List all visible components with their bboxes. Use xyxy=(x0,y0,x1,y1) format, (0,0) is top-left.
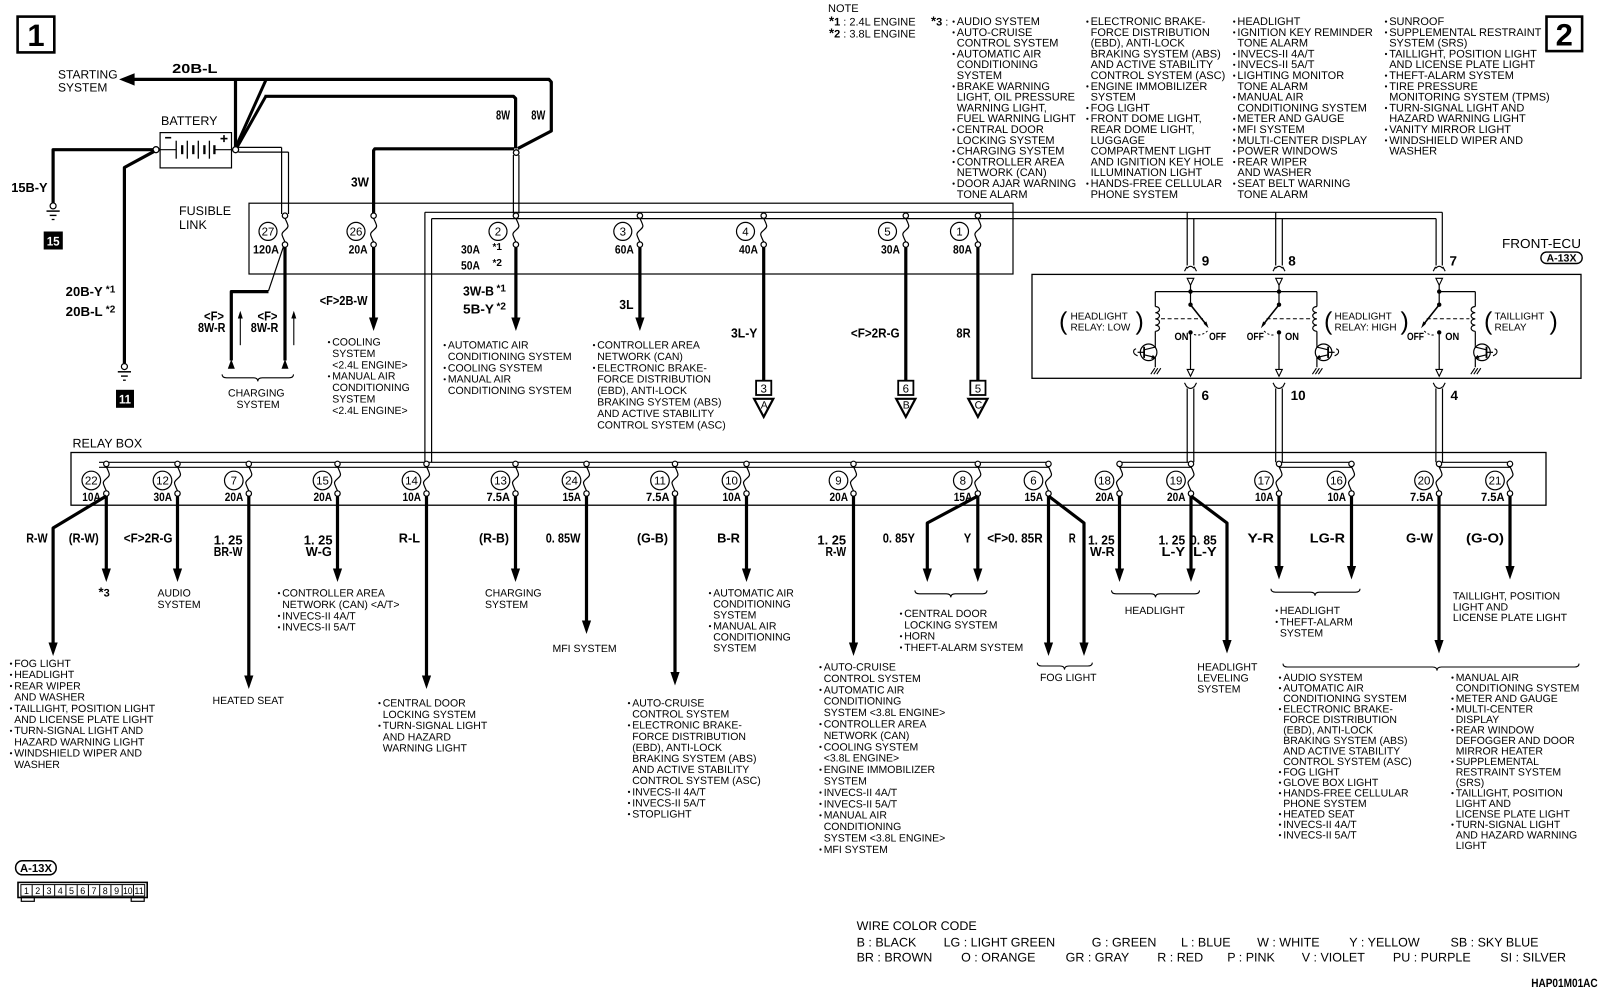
svg-text:TAILLIGHT: TAILLIGHT xyxy=(1495,312,1545,323)
destination list fuses 17/16 xyxy=(1271,589,1360,640)
svg-text:CONTROL SYSTEM (ASC): CONTROL SYSTEM (ASC) xyxy=(597,419,726,431)
svg-text:2: 2 xyxy=(1556,18,1573,53)
relay box fuse 18 20A xyxy=(1095,461,1122,504)
svg-text:1: 1 xyxy=(24,886,29,897)
svg-text:FOG LIGHT: FOG LIGHT xyxy=(14,658,71,670)
ECU pin 4 xyxy=(1433,383,1458,403)
svg-text:FOG LIGHT: FOG LIGHT xyxy=(1040,672,1097,684)
wire F 8W-R fuse 27 to charging system (left branch) xyxy=(198,247,284,369)
svg-text:6: 6 xyxy=(1202,388,1210,403)
wire 8R fuse 1 to connector C xyxy=(956,247,978,380)
fusible link fuse 1 80A xyxy=(951,213,981,257)
relay K1 transistor Q1 xyxy=(1134,344,1161,374)
relay box fuse 19 20A xyxy=(1167,461,1194,504)
svg-text:60A: 60A xyxy=(615,243,634,257)
svg-text:TURN-SIGNAL LIGHT AND: TURN-SIGNAL LIGHT AND xyxy=(14,725,143,737)
destination charging system xyxy=(485,588,542,612)
svg-text:C: C xyxy=(975,400,983,412)
svg-text:CONTROLLER AREA: CONTROLLER AREA xyxy=(282,588,385,600)
fusible link fuse 5 30A xyxy=(879,213,909,257)
sheet marker 1 xyxy=(18,17,55,53)
relay box fuse 6 15A xyxy=(1024,461,1051,504)
svg-text:L-Y: L-Y xyxy=(1162,544,1186,559)
relay K3 transistor Q3 xyxy=(1471,344,1497,374)
svg-text:HAZARD WARNING LIGHT: HAZARD WARNING LIGHT xyxy=(14,736,145,748)
svg-text:AND ACTIVE STABILITY: AND ACTIVE STABILITY xyxy=(597,408,714,420)
fusible link fuse 26 20A xyxy=(347,213,377,257)
svg-text:20A: 20A xyxy=(1096,490,1115,504)
svg-text:SYSTEM: SYSTEM xyxy=(824,776,867,788)
svg-text:LG : LIGHT GREEN: LG : LIGHT GREEN xyxy=(944,935,1056,949)
wire R-W fuse 22 to light systems xyxy=(26,496,106,656)
destination list fuse 15 xyxy=(278,588,400,634)
relay K3 switch xyxy=(1407,292,1469,343)
svg-text:CONTROLLER AREA: CONTROLLER AREA xyxy=(824,719,927,731)
svg-text:G-W: G-W xyxy=(1406,531,1434,546)
svg-text:10: 10 xyxy=(123,886,133,897)
destination list fuse 26 xyxy=(328,337,410,417)
svg-text:(G-O): (G-O) xyxy=(1466,531,1504,546)
svg-text:120A: 120A xyxy=(253,243,279,257)
hollow wire pin 10 to relay box xyxy=(1276,388,1283,462)
wire 0.85W fuse 24 to MFI system xyxy=(546,496,591,634)
svg-text:AND HAZARD: AND HAZARD xyxy=(383,731,452,743)
svg-text:ON: ON xyxy=(1175,331,1189,343)
note legend xyxy=(828,3,948,41)
svg-text:W : WHITE: W : WHITE xyxy=(1257,935,1320,949)
svg-text:RELAY: LOW: RELAY: LOW xyxy=(1071,323,1131,334)
svg-text:7.5A: 7.5A xyxy=(487,490,511,504)
svg-text:INVECS-II 5A/T: INVECS-II 5A/T xyxy=(824,798,898,810)
svg-text:MANUAL AIR: MANUAL AIR xyxy=(824,810,888,822)
wire 3W-B/5B-Y fuse 2 to A/C systems xyxy=(463,247,521,331)
wire 3L-Y fuse 4 to connector A xyxy=(731,247,764,380)
svg-text:OFF: OFF xyxy=(1209,331,1226,343)
destination list fuse 11 xyxy=(628,698,761,821)
wire 1.25W-R fuse 18 to headlight xyxy=(1088,496,1124,582)
svg-text:WINDSHIELD WIPER AND: WINDSHIELD WIPER AND xyxy=(14,748,142,760)
svg-text:HAP01M01AC: HAP01M01AC xyxy=(1531,976,1598,990)
wire Y fuse 8 straight xyxy=(964,496,983,582)
svg-text:6: 6 xyxy=(80,886,85,897)
wire 15B-Y battery negative to ground 15 xyxy=(11,150,153,203)
svg-text:STOPLIGHT: STOPLIGHT xyxy=(632,809,692,821)
svg-text:3W-B: 3W-B xyxy=(463,284,494,299)
svg-text:R-W: R-W xyxy=(826,544,847,559)
svg-text:<F>2B-W: <F>2B-W xyxy=(320,293,368,308)
svg-text:AND LICENSE PLATE LIGHT: AND LICENSE PLATE LIGHT xyxy=(14,714,154,726)
svg-text:*2 : 3.8L ENGINE: *2 : 3.8L ENGINE xyxy=(829,26,916,41)
svg-text:OFF: OFF xyxy=(1247,331,1264,343)
svg-text:4: 4 xyxy=(742,227,749,239)
svg-text:L-Y: L-Y xyxy=(1193,544,1217,559)
svg-text:5: 5 xyxy=(975,383,981,395)
svg-text:18: 18 xyxy=(1098,476,1111,488)
svg-text:P : PINK: P : PINK xyxy=(1227,951,1275,965)
svg-text:<F>2R-G: <F>2R-G xyxy=(851,326,900,341)
relay box fuse 21 7.5A xyxy=(1481,461,1513,504)
relay box fuse 14 10A xyxy=(402,461,429,504)
battery xyxy=(153,114,239,168)
svg-text:4: 4 xyxy=(1451,388,1459,403)
ECU pin 7 xyxy=(1433,254,1457,286)
svg-text:R: R xyxy=(1069,531,1076,546)
svg-text:10A: 10A xyxy=(1328,490,1347,504)
relay box bus (main) xyxy=(99,462,1049,467)
svg-text:AUTOMATIC AIR: AUTOMATIC AIR xyxy=(824,684,905,696)
svg-text:REAR WIPER: REAR WIPER xyxy=(14,680,81,692)
svg-text:AUTO-CRUISE: AUTO-CRUISE xyxy=(824,662,896,674)
svg-text:R : RED: R : RED xyxy=(1157,951,1203,965)
svg-text:SYSTEM: SYSTEM xyxy=(332,394,375,406)
relay box fuse 22 10A xyxy=(82,461,109,504)
relay box fuse 24 15A xyxy=(562,461,589,504)
offpage connector 6/B xyxy=(896,381,915,417)
label relay box xyxy=(73,437,143,451)
relay K3 label xyxy=(1484,308,1558,336)
relay box bus segment fuses 20-21 xyxy=(1439,462,1510,467)
svg-text:WARNING LIGHT: WARNING LIGHT xyxy=(383,743,468,755)
relay K1 label xyxy=(1059,308,1144,336)
svg-text:CENTRAL DOOR: CENTRAL DOOR xyxy=(383,698,466,710)
svg-text:2: 2 xyxy=(35,886,40,897)
wire R-L fuse 14 to central door locking xyxy=(399,496,431,689)
wire F 0.85R fuse 6 straight to fog light xyxy=(987,496,1053,656)
destination list fuse 20 (right column) xyxy=(1451,672,1579,852)
svg-text:Y : YELLOW: Y : YELLOW xyxy=(1349,935,1420,949)
svg-text:6: 6 xyxy=(903,383,909,395)
svg-text:A-13X: A-13X xyxy=(1547,252,1577,264)
relay K2 transistor Q2 xyxy=(1312,344,1338,374)
svg-text:HEATED SEAT: HEATED SEAT xyxy=(213,695,285,707)
wire 1.25R-W fuse 9 to auto-cruise etc xyxy=(817,496,858,656)
svg-text:WASHER: WASHER xyxy=(14,759,60,771)
svg-text:B-R: B-R xyxy=(717,531,741,546)
relay K2 output to pin 10 xyxy=(1276,335,1283,377)
svg-text:SYSTEM: SYSTEM xyxy=(237,399,280,411)
ground 15 xyxy=(44,203,62,249)
relay box fuse 17 10A xyxy=(1255,461,1282,504)
hollow cable battery positive to fusible link fuse 27 xyxy=(238,147,288,214)
svg-text:8R: 8R xyxy=(956,326,971,341)
svg-text:TAILLIGHT, POSITION LIGHT: TAILLIGHT, POSITION LIGHT xyxy=(14,703,156,715)
svg-text:BR : BROWN: BR : BROWN xyxy=(857,951,933,965)
destination taillight (fuse 21) xyxy=(1453,591,1568,625)
svg-text:10: 10 xyxy=(725,476,738,488)
svg-text:*2: *2 xyxy=(106,304,116,315)
svg-text:<2.4L ENGINE>: <2.4L ENGINE> xyxy=(332,405,407,417)
svg-text:21: 21 xyxy=(1489,476,1502,488)
svg-text:CONDITIONING SYSTEM: CONDITIONING SYSTEM xyxy=(448,351,572,363)
svg-text:7.5A: 7.5A xyxy=(1410,490,1434,504)
svg-text:9: 9 xyxy=(1202,254,1210,269)
svg-text:20B-L: 20B-L xyxy=(172,61,217,76)
destination list fuse 10 xyxy=(709,588,794,655)
wire (R-B) fuse 13 to charging system xyxy=(479,496,520,582)
svg-text:5: 5 xyxy=(884,227,890,239)
svg-text:CENTRAL DOOR: CENTRAL DOOR xyxy=(904,608,987,620)
svg-text:CONTROL SYSTEM: CONTROL SYSTEM xyxy=(824,673,921,685)
svg-text:8W: 8W xyxy=(531,107,546,122)
wire F 2B-W fuse 26 to cooling system xyxy=(320,247,379,331)
svg-text:40A: 40A xyxy=(739,243,758,257)
svg-text:50A: 50A xyxy=(461,259,480,273)
svg-text:R-L: R-L xyxy=(399,531,420,546)
svg-text:WIRE COLOR CODE: WIRE COLOR CODE xyxy=(857,919,977,933)
fusible link fuse 4 40A xyxy=(737,213,767,257)
svg-text:9: 9 xyxy=(114,886,119,897)
svg-text:BRAKING SYSTEM (ABS): BRAKING SYSTEM (ABS) xyxy=(597,397,721,409)
label 8W (left) xyxy=(496,107,511,122)
svg-text:3: 3 xyxy=(620,227,626,239)
svg-text:13: 13 xyxy=(494,476,507,488)
svg-text:5B-Y: 5B-Y xyxy=(463,302,494,317)
connector label A-13X (bottom) xyxy=(16,861,57,875)
wire 20B-L battery to starting system xyxy=(119,61,551,149)
relay box bus segment fuses 17-16 xyxy=(1279,462,1352,467)
relay box fuse 16 10A xyxy=(1327,461,1354,504)
destination headlight (fuses 18/19) xyxy=(1112,590,1200,617)
wire 1.25BR-W fuse 7 to heated seat xyxy=(214,496,254,689)
svg-text:B: B xyxy=(903,400,910,412)
relay box fuse 12 30A xyxy=(153,461,180,504)
destination headlight leveling system xyxy=(1197,662,1258,696)
svg-text:RELAY: RELAY xyxy=(1495,323,1527,334)
svg-text:8W: 8W xyxy=(496,107,511,122)
svg-text:8W-R: 8W-R xyxy=(198,320,226,335)
svg-text:20A: 20A xyxy=(225,490,244,504)
svg-text:0. 85W: 0. 85W xyxy=(546,531,581,546)
svg-text:HEADLIGHT: HEADLIGHT xyxy=(1125,605,1186,617)
direction arrows up (charging) xyxy=(238,311,296,345)
svg-text:80A: 80A xyxy=(953,243,972,257)
svg-text:NETWORK (CAN): NETWORK (CAN) xyxy=(824,730,910,742)
svg-text:LICENSE PLATE LIGHT: LICENSE PLATE LIGHT xyxy=(1453,612,1568,624)
svg-text:SYSTEM: SYSTEM xyxy=(332,348,375,360)
relay box fuse 20 7.5A xyxy=(1410,461,1442,504)
svg-text:SI : SILVER: SI : SILVER xyxy=(1500,951,1566,965)
label FRONT-ECU xyxy=(1502,236,1581,251)
svg-text:G : GREEN: G : GREEN xyxy=(1092,935,1157,949)
svg-text:<3.8L ENGINE>: <3.8L ENGINE> xyxy=(824,753,899,765)
svg-text:15: 15 xyxy=(47,234,60,248)
svg-text:HEADLIGHT: HEADLIGHT xyxy=(14,669,75,681)
relay box fuse 8 15A xyxy=(954,461,981,504)
svg-text:*1: *1 xyxy=(497,284,507,295)
wire color code legend xyxy=(857,919,1566,965)
wire Y-R fuse 17 to headlight/theft-alarm xyxy=(1247,496,1283,580)
svg-text:CONDITIONING SYSTEM: CONDITIONING SYSTEM xyxy=(448,385,572,397)
svg-text:8: 8 xyxy=(960,476,966,488)
svg-text:<F>2R-G: <F>2R-G xyxy=(124,531,173,546)
relay box fuse 9 20A xyxy=(829,461,856,504)
svg-text:R-W: R-W xyxy=(26,531,48,546)
svg-text:W-G: W-G xyxy=(306,544,332,559)
ECU pin 6 xyxy=(1185,383,1210,403)
svg-text:HEADLIGHT: HEADLIGHT xyxy=(1280,605,1341,617)
front ECU box xyxy=(1032,274,1581,378)
svg-text:24: 24 xyxy=(565,476,578,488)
destination list fuse 8 xyxy=(900,590,1023,654)
node junction 8W/3W xyxy=(513,150,519,156)
svg-text:*1: *1 xyxy=(106,284,116,295)
svg-text:LOCKING SYSTEM: LOCKING SYSTEM xyxy=(904,619,997,631)
svg-text:3: 3 xyxy=(47,886,52,897)
svg-text:17: 17 xyxy=(1258,476,1271,488)
relay K2 headlight high : coil xyxy=(1313,292,1317,346)
svg-text:ON: ON xyxy=(1445,331,1459,343)
svg-text:O : ORANGE: O : ORANGE xyxy=(961,951,1035,965)
svg-text:14: 14 xyxy=(405,476,418,488)
svg-text:INVECS-II 5A/T: INVECS-II 5A/T xyxy=(282,622,356,634)
svg-text:Y-R: Y-R xyxy=(1247,531,1274,546)
svg-text:AUTOMATIC AIR: AUTOMATIC AIR xyxy=(448,340,529,352)
ECU pin 9 xyxy=(1185,254,1210,286)
svg-text:RELAY: HIGH: RELAY: HIGH xyxy=(1335,323,1397,334)
svg-text:20A: 20A xyxy=(1167,490,1186,504)
wire R fuse 6 branch to fog light xyxy=(1049,496,1089,656)
svg-text:5: 5 xyxy=(69,886,74,897)
svg-text:10A: 10A xyxy=(1255,490,1274,504)
svg-text:): ) xyxy=(1136,308,1144,336)
svg-text:CONTROLLER AREA: CONTROLLER AREA xyxy=(597,340,700,352)
svg-text:BATTERY: BATTERY xyxy=(161,114,218,128)
svg-text:(: ( xyxy=(1484,308,1493,336)
relay box fuse 13 7.5A xyxy=(487,461,519,504)
svg-text:): ) xyxy=(1550,308,1558,336)
svg-text:HEADLIGHT: HEADLIGHT xyxy=(1071,312,1128,323)
wire 0.85Y fuse 8 branch to central door locking xyxy=(883,496,978,582)
svg-text:HEADLIGHT: HEADLIGHT xyxy=(1335,312,1392,323)
ECU pin 10 xyxy=(1273,383,1306,403)
svg-text:8: 8 xyxy=(1288,254,1296,269)
wire (G-B) fuse 11 to auto-cruise/EBD xyxy=(637,496,680,686)
svg-text:BR-W: BR-W xyxy=(214,544,243,559)
svg-text:CONDITIONING: CONDITIONING xyxy=(332,382,410,394)
svg-text:0. 85Y: 0. 85Y xyxy=(883,531,915,546)
svg-text:30A: 30A xyxy=(154,490,173,504)
svg-text:STARTING: STARTING xyxy=(58,68,118,82)
hollow cable junction to fuse 2 xyxy=(513,155,519,214)
destination fog light (fuse 6) xyxy=(1037,663,1097,684)
svg-text:<F>0. 85R: <F>0. 85R xyxy=(987,531,1043,546)
svg-text:SYSTEM: SYSTEM xyxy=(158,599,201,611)
destination list fuse 20 (left column) xyxy=(1279,664,1579,842)
svg-text:3L: 3L xyxy=(619,297,633,312)
svg-text:26: 26 xyxy=(350,227,363,239)
fusible link fuse 3 60A xyxy=(614,213,643,257)
destination audio system xyxy=(158,588,201,612)
svg-text:THEFT-ALARM: THEFT-ALARM xyxy=(1280,616,1353,628)
svg-text:Y: Y xyxy=(964,531,972,546)
svg-text:10A: 10A xyxy=(403,490,422,504)
svg-text:7.5A: 7.5A xyxy=(1481,490,1505,504)
svg-text:(: ( xyxy=(1059,308,1068,336)
svg-text:SYSTEM: SYSTEM xyxy=(1197,684,1240,696)
svg-text:SYSTEM: SYSTEM xyxy=(485,599,528,611)
hollow wire pin 4 to relay box xyxy=(1436,388,1443,462)
svg-text:22: 22 xyxy=(85,476,98,488)
svg-text:OFF: OFF xyxy=(1407,331,1424,343)
relay K1 headlight low : coil xyxy=(1155,292,1159,346)
svg-text:MFI SYSTEM: MFI SYSTEM xyxy=(553,643,617,655)
relay box fuse 10 10A xyxy=(722,461,749,504)
svg-text:ELECTRONIC BRAKE-: ELECTRONIC BRAKE- xyxy=(597,362,707,374)
destination heated seat xyxy=(213,695,285,707)
svg-text:ON: ON xyxy=(1285,331,1299,343)
wire LG-R fuse 16 xyxy=(1310,496,1356,580)
svg-text:TONE ALARM: TONE ALARM xyxy=(957,189,1028,201)
svg-text:9: 9 xyxy=(835,476,841,488)
ground 11 xyxy=(117,364,134,408)
svg-text:8W-R: 8W-R xyxy=(251,320,279,335)
svg-text:V : VIOLET: V : VIOLET xyxy=(1302,951,1366,965)
svg-text:A: A xyxy=(761,400,768,412)
svg-text:COOLING SYSTEM: COOLING SYSTEM xyxy=(824,741,919,753)
svg-text:19: 19 xyxy=(1170,476,1183,488)
label starting system xyxy=(58,68,118,95)
label fusible link xyxy=(179,204,231,232)
svg-text:7: 7 xyxy=(1450,254,1458,269)
svg-text:10: 10 xyxy=(1291,388,1306,403)
relay K1 output to pin 6 xyxy=(1187,335,1194,377)
svg-text:FRONT-ECU: FRONT-ECU xyxy=(1502,236,1581,251)
svg-text:*3 :: *3 : xyxy=(931,14,948,29)
svg-text:LOCKING SYSTEM: LOCKING SYSTEM xyxy=(383,709,476,721)
sheet marker 2 xyxy=(1547,17,1583,53)
relay box fuse 15 20A xyxy=(313,461,340,504)
ECU internal supply rail relay 3 xyxy=(1437,285,1475,294)
svg-text:COOLING: COOLING xyxy=(332,337,380,349)
relay box fuse 11 7.5A xyxy=(646,461,678,504)
wire F 2R-G fuse 12 to audio system xyxy=(124,496,182,582)
svg-text:CHARGING: CHARGING xyxy=(485,588,542,600)
svg-text:1: 1 xyxy=(956,227,962,239)
svg-text:WASHER: WASHER xyxy=(1389,146,1437,158)
svg-text:CHARGING: CHARGING xyxy=(228,388,285,400)
wire 1.25W-G fuse 15 to CAN xyxy=(304,496,342,582)
wire 3L fuse 3 to CAN/EBD xyxy=(619,247,644,331)
svg-text:FORCE DISTRIBUTION: FORCE DISTRIBUTION xyxy=(597,374,711,386)
relay K3 output to pin 4 xyxy=(1436,335,1443,377)
svg-text:2: 2 xyxy=(495,227,501,239)
wire G-W fuse 20 to many systems xyxy=(1406,496,1444,654)
svg-text:THEFT-ALARM SYSTEM: THEFT-ALARM SYSTEM xyxy=(904,642,1023,654)
svg-text:AND WASHER: AND WASHER xyxy=(14,692,85,704)
svg-text:3W: 3W xyxy=(351,175,370,190)
svg-text:(: ( xyxy=(1324,308,1333,336)
svg-text:(R-W): (R-W) xyxy=(69,531,99,546)
wire F 8W-R fuse 27 to charging system (right branch) xyxy=(251,247,289,368)
wire 8W lower run xyxy=(236,96,515,149)
ECU pin 8 xyxy=(1273,254,1296,286)
hollow wire pin 6 to relay box xyxy=(1187,388,1194,462)
relay K2 switch xyxy=(1247,292,1311,343)
svg-text:SYSTEM: SYSTEM xyxy=(713,643,756,655)
svg-text:SYSTEM <3.8L ENGINE>: SYSTEM <3.8L ENGINE> xyxy=(824,833,946,845)
svg-text:*3: *3 xyxy=(99,585,110,600)
wire (R-W) fuse 22 to *3 systems xyxy=(69,496,111,600)
svg-text:15A: 15A xyxy=(1025,490,1044,504)
wire F 2R-G fuse 5 to connector B xyxy=(851,247,906,380)
svg-text:20A: 20A xyxy=(349,243,368,257)
wire 20B-Y/20B-L battery negative to ground 11 xyxy=(66,151,155,363)
relay box fuse 7 20A xyxy=(225,461,252,504)
svg-text:NETWORK (CAN): NETWORK (CAN) xyxy=(597,351,683,363)
svg-text:6: 6 xyxy=(1030,476,1036,488)
offpage connector 3/A xyxy=(754,381,773,417)
svg-text:TURN-SIGNAL LIGHT: TURN-SIGNAL LIGHT xyxy=(383,720,488,732)
